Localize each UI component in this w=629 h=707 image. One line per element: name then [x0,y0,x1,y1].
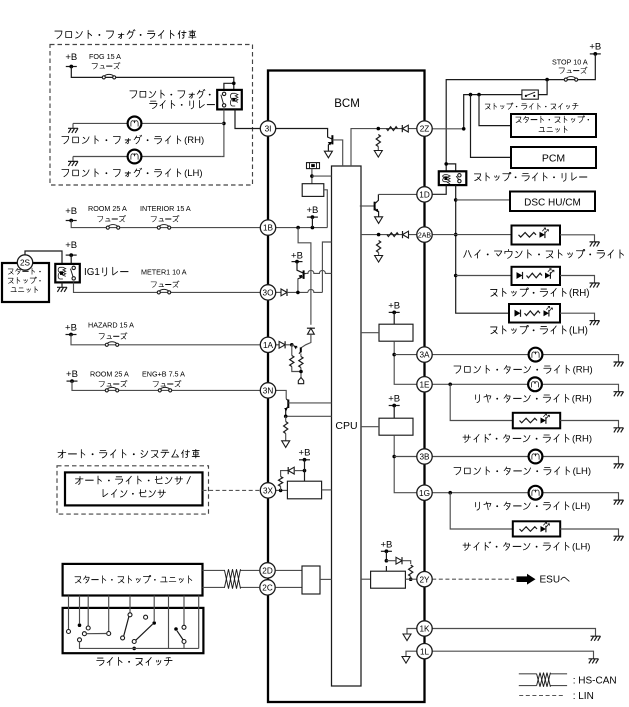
wire relay top pins tie [224,83,234,90]
svg-text:3B: 3B [419,453,430,462]
wire resonator to box [311,169,313,184]
svg-text:3O: 3O [263,289,274,298]
wire to PCM [471,95,512,158]
fuse HAZARD 15A [105,342,118,347]
ground arrow 2Z [374,151,382,158]
svg-text:CPU: CPU [335,420,357,432]
switch blade 1 [124,617,129,637]
ground IG1 relay [57,287,67,292]
wire switch to 2Z [464,95,522,129]
+B hazard [65,323,77,337]
high mount stop light box [512,226,561,245]
ground stop LH [590,321,600,326]
pin 1B [260,220,275,235]
resistor 2AB pulldown [377,241,381,253]
wire 3N row [72,381,260,390]
wire 1K [432,629,595,637]
label ssu line1 [516,116,589,123]
label sensor line1 [75,476,190,484]
svg-text:+B: +B [306,205,318,216]
wire relay coil to 1D [432,185,446,194]
svg-text:ROOM 25 A: ROOM 25 A [90,370,129,379]
label rear turn RH [476,394,592,405]
ground fog LH [68,161,78,166]
stop light RH box [512,267,561,285]
label start line1 [8,268,41,274]
label stop light relay [474,172,587,181]
transistor Q4 [284,399,331,417]
svg-text:+B: +B [66,369,78,380]
svg-text:2S: 2S [20,259,31,268]
label STOP 10A [552,58,588,67]
pin 3X [260,483,275,498]
label high mount stop light [464,249,624,258]
wire stop fuse to relay [446,54,595,171]
stop light relay [446,164,456,171]
label to ESU [540,575,570,586]
svg-text:(LH): (LH) [569,325,588,336]
svg-text:: HS-CAN: : HS-CAN [573,676,617,687]
wire 1B inside [276,227,328,229]
label IG1 relay [84,267,128,278]
wire driver to 2Y [405,578,417,580]
svg-text:(RH): (RH) [184,135,204,146]
label unit line3 [11,286,38,292]
svg-text:(LH): (LH) [572,501,590,512]
wire down to hazard diode [298,228,311,325]
wire fog lamp LH row [73,156,222,158]
svg-text:1D: 1D [419,191,430,200]
transistor Q2 [298,270,306,279]
label front fog light RH [62,135,204,146]
wire 2AB row out [432,234,511,236]
ground front turn LH [614,464,624,469]
+B 1B row [65,206,77,222]
pin 2C [260,580,275,595]
ground side turn RH [614,428,624,433]
resistor 3N emitter [284,422,288,434]
svg-text:+B: +B [388,301,400,312]
label stop line2 [8,277,41,284]
resistor 3X [279,477,283,487]
PCM box [511,147,596,168]
svg-text:FOG 15 A: FOG 15 A [89,52,121,61]
ground front turn RH [614,362,624,367]
svg-text:ROOM 25 A: ROOM 25 A [88,204,127,213]
label stop light switch [485,103,578,109]
svg-text:3N: 3N [263,387,274,396]
pin 2Z [417,121,432,136]
diode 1A [279,341,285,348]
svg-text:(RH): (RH) [573,365,593,376]
fuse INTERIOR 15A [157,225,171,230]
wire B2 to CPU [322,489,332,491]
lamp rear turn LH [529,486,543,500]
resistor 2AB series [387,233,399,237]
side turn light RH box [513,413,560,429]
ground side turn LH [614,536,624,541]
start stop unit box (2S) [2,263,49,302]
+B fog [65,52,77,68]
resistor 1A left [290,356,294,367]
wire 1A inside [276,344,279,346]
svg-text:1E: 1E [419,380,430,389]
label HAZARD 15A [88,321,134,330]
wire 3X inside [276,489,288,491]
CPU box [332,166,362,686]
pin 2D [260,563,275,578]
diode 2AB [403,231,409,238]
wire Q2 collector to CPU with hops [306,270,332,273]
svg-text:2C: 2C [262,584,273,593]
svg-text:+B: +B [65,206,77,217]
ground rear turn RH [614,392,624,397]
label: front fog light equipped vehicles [55,30,196,39]
resistor 1A right [299,357,303,368]
legend LIN dashes [519,695,564,697]
svg-text:HAZARD 15 A: HAZARD 15 A [88,321,134,330]
BCM module box [268,71,425,703]
pin 2S [17,255,32,270]
DSC HU/CM box [510,192,595,212]
svg-text:PCM: PCM [542,153,565,165]
wire relay coil to 3I [235,109,260,128]
wire diode to Q3 [301,334,311,348]
fuse ENG+B 7.5A [158,387,172,392]
svg-text:+B: +B [380,540,392,551]
transistor Q3 [292,345,301,354]
lamp front turn RH [529,348,543,362]
label fog relay line1 [130,89,211,98]
pin 1L [417,644,432,659]
wire branch side turn LH [450,493,513,529]
label start stop unit [75,575,192,583]
wire 2D inside [276,569,302,571]
label ROOM 25A 2 [90,370,129,379]
label light switch [97,657,172,665]
auto light sensor / rain sensor box [65,472,203,505]
wire 1K inside [407,629,417,635]
wire CPU to Q5 base [360,205,374,207]
diode 3O [281,289,287,296]
svg-text:1L: 1L [420,647,430,656]
pin 3B [417,449,432,464]
diode hazard vertical [307,328,315,334]
label INTERIOR 15A [140,204,191,213]
pin 3I [260,121,275,136]
pin 3O [260,285,275,300]
svg-text:(RH): (RH) [572,434,592,445]
lamp front fog light LH [128,150,142,164]
svg-text:IG1: IG1 [84,267,100,278]
fuse ROOM 25A [106,225,119,230]
svg-text:METER1 10 A: METER1 10 A [141,268,187,277]
diode 2Y [396,557,402,564]
wire fuse to stop light switch [538,80,547,95]
IG1 relay [55,264,80,283]
label side turn LH [463,542,591,553]
wire stop RH [456,275,512,277]
wire 1B row [71,221,260,228]
wire CAN H left [203,569,226,571]
signal arrow 1A [298,378,303,384]
wire CAN L left [203,586,226,588]
svg-text:1G: 1G [419,489,430,498]
wire IG1 coil to ground [61,282,63,287]
pin 1E [417,377,432,392]
wire +B to Q2 [297,262,303,273]
+B 2Y driver [380,540,392,554]
wire 1L [432,651,593,659]
wire Q2 emitter to 3O row [297,279,299,293]
svg-text:1K: 1K [419,625,430,634]
wire driver RH to 3A/1E [394,341,417,384]
+B turn driver LH [388,394,400,408]
ground arrow Q5 [375,217,383,224]
pin 3N [260,383,275,398]
dashed box: vehicles with front fog lights [50,45,253,186]
wire +B to IG1 switch [70,255,72,264]
diode 2Z [402,125,408,132]
label front turn RH [454,365,593,376]
start stop unit box [63,564,203,596]
svg-text:2Y: 2Y [419,575,430,584]
wire 1G rear turn LH [432,493,618,500]
pin 1D [417,187,432,202]
twisted pair CAN [225,569,241,588]
wire CPU to driver RH [361,332,379,334]
switch contacts [67,630,71,634]
wire Q4 emitter to CPU [286,415,332,417]
legend HS-CAN [519,674,567,686]
ground rear turn LH [614,500,624,505]
wire Q5 to 1D [378,193,417,195]
svg-text:+B: +B [388,394,400,405]
fuse STOP 10A [564,77,578,82]
svg-text:(LH): (LH) [184,168,202,179]
label front turn LH [454,466,591,477]
wire fog lamp RH row [73,122,224,124]
LIN wire sensor to 3X [203,489,261,491]
wire CPU to 2Z [351,129,418,166]
label stop light LH [491,325,588,336]
svg-text:2AB: 2AB [418,233,432,240]
svg-text:(LH): (LH) [572,542,590,553]
lamp front fog light RH [128,117,142,131]
turn driver box RH [379,324,413,341]
wire 3I to Q1 [276,129,332,140]
svg-text:3X: 3X [263,487,274,496]
fuse FOG 15A [102,74,115,79]
svg-text:(RH): (RH) [569,288,589,299]
wire 3O inside [276,291,281,293]
svg-text:: LIN: : LIN [573,691,594,702]
+B inside 3X [299,448,311,462]
pin 2AB [417,227,432,242]
ground arrow 1K [403,634,411,641]
ground 1L [589,659,599,664]
diode 3X [294,470,304,472]
switch blade 2 [136,624,153,640]
svg-text:1A: 1A [263,341,274,350]
stop light LH box [509,304,560,323]
pin 1K [417,621,432,636]
CAN transceiver box [302,566,320,594]
dashed box auto light system [57,466,209,514]
wire to DSC [456,199,511,201]
svg-text:INTERIOR 15 A: INTERIOR 15 A [140,204,191,213]
+B stop [589,42,601,56]
+B inside 1B [306,205,318,219]
ground arrow 1L [402,657,410,664]
resistor 2Y [409,565,413,576]
label ROOM 25A [88,204,127,213]
wire relay switch down to stop LH [456,185,509,313]
svg-text:ESU: ESU [540,575,561,586]
wire 1E rear turn RH [432,384,618,391]
resistor 2Z pulldown [376,135,380,147]
switch blade 3 [177,631,183,640]
label: auto light system equipped [58,449,199,458]
wire 3O to CPU [322,242,331,292]
svg-text:1B: 1B [263,224,274,233]
wire 2Z out [432,128,464,130]
wire B1 to 1B row [324,190,328,228]
stop light switch [522,90,538,99]
fuse ROOM 25A 2 [105,387,118,392]
light switch box [63,608,204,653]
+B inside 3O [291,251,303,264]
svg-text:3A: 3A [419,351,430,360]
ground arrow Q1 [324,151,332,158]
side turn light LH box [513,521,560,536]
svg-text:2Z: 2Z [420,125,430,134]
svg-text:+B: +B [65,323,77,334]
wire +B to fog relay [71,67,234,90]
label fuse [92,62,120,69]
wire CPU to 2Y driver [361,578,371,580]
start stop unit box (right) [511,114,596,137]
wire 2C inside [276,586,302,588]
wire branch side turn RH [450,384,513,420]
svg-text:DSC HU/CM: DSC HU/CM [524,198,581,209]
wire CPU to driver LH [361,426,379,428]
svg-text:(LH): (LH) [573,466,591,477]
ground high mount [590,242,600,247]
LIN wire 2Y to ESU [432,578,514,580]
wire CPU to 2AB [361,234,418,236]
+B 3N row [66,369,78,383]
label side turn RH [463,434,592,445]
pin 2Y [417,572,432,587]
lamp front turn LH [529,450,543,464]
label stop light RH [491,288,590,299]
transistor Q5 [375,194,379,216]
svg-text:+B: +B [65,52,77,63]
ground fog RH [68,128,78,133]
wire 3O row [74,282,261,292]
switch bottom bus [80,642,199,649]
wire 3B front turn LH [432,457,618,464]
ground arrow 3N [282,441,290,448]
label FOG 15 A [89,52,121,61]
lamp rear turn RH [528,377,542,391]
+B IG1 [65,240,77,257]
svg-text:STOP 10 A: STOP 10 A [552,58,588,67]
wire 3A front turn RH [432,355,618,362]
svg-text:(RH): (RH) [572,394,592,405]
wire 1A row [71,335,260,345]
ground stop RH [590,283,600,288]
+B turn driver RH [388,301,400,315]
label sensor line2 [103,489,166,497]
resonator symbol [307,163,320,169]
svg-text:+B: +B [65,240,77,251]
label ssu line2 [539,126,567,133]
wire 2S to IG1 relay coil [25,251,62,264]
2Y driver box [371,571,406,588]
label METER1 10A [141,268,187,277]
wire 1L inside [406,651,417,656]
stop light relay [439,171,467,185]
light switch wiring [68,596,70,630]
transistor Q1 fog driver [328,135,343,166]
label ENG+B 7.5A [142,370,185,379]
svg-text:+B: +B [299,448,311,459]
label front fog light LH [62,168,203,179]
svg-text:3I: 3I [265,125,272,134]
sub box B2 (auto light) [287,481,321,499]
front fog light relay [217,90,242,110]
wire driver LH to 3B/1G [394,435,417,493]
wire transceiver to CPU [320,578,332,580]
svg-text:2D: 2D [262,567,273,576]
svg-text:ENG+B 7.5 A: ENG+B 7.5 A [142,370,185,379]
svg-text:BCM: BCM [334,98,360,110]
ground arrow 2AB [375,256,383,263]
label rear turn LH [476,501,591,512]
svg-text:+B: +B [589,42,601,53]
ground 1K [591,636,601,641]
wire to CPU [312,175,332,177]
wire relay switch to lamps [222,109,224,156]
pin 1G [417,485,432,500]
pin 3A [417,347,432,362]
label fog relay line2 [150,100,215,108]
wire to start stop unit [479,95,511,126]
wire 3N inside [276,390,287,398]
sub box B1 [302,184,324,197]
turn driver box LH [379,418,413,435]
fuse METER1 10A [157,289,171,294]
arrow ESU [517,574,536,585]
resistor 2Z series [387,127,398,131]
pin 1A [260,337,275,352]
